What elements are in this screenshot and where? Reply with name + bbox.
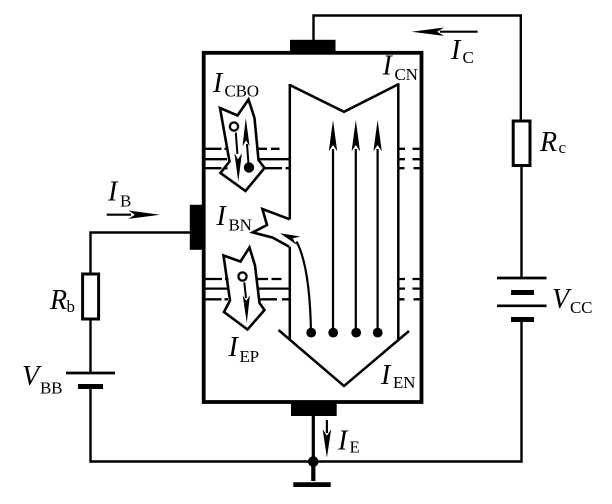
svg-text:EP: EP [240, 347, 259, 366]
node: emitter junction dot [308, 456, 319, 467]
collector junction lines left [206, 149, 229, 168]
electron dot in Icbo [244, 162, 254, 172]
electron line 1 recombination curve [280, 233, 316, 337]
arrow Ib [107, 211, 160, 219]
svg-text:I: I [380, 360, 392, 391]
funnel left edge upper [289, 84, 292, 219]
arrow Iep outline [224, 248, 265, 330]
hole down arrow in Icbo [234, 133, 242, 182]
svg-text:R: R [539, 127, 557, 158]
svg-text:I: I [212, 68, 224, 99]
funnel right edge [397, 83, 400, 341]
collector contact [290, 40, 336, 54]
arrow Ie [323, 420, 332, 458]
hole down arrow in Iep [243, 282, 250, 323]
svg-text:BN: BN [229, 216, 252, 235]
electron line 4 [373, 120, 383, 338]
hole circle in Icbo [230, 122, 238, 130]
ground [293, 462, 330, 485]
svg-text:CC: CC [570, 298, 592, 317]
svg-text:V: V [552, 284, 572, 315]
wire: Vbb to Rb [89, 319, 91, 373]
emitter contact [291, 402, 337, 416]
collector junction dashes right [398, 149, 420, 168]
resistor Rb [83, 274, 99, 319]
emitter junction dashes right [398, 279, 420, 299]
svg-text:CBO: CBO [225, 82, 259, 101]
svg-text:E: E [350, 438, 360, 457]
electron up arrow in Icbo [243, 118, 250, 163]
wire: top from collector stub to right rail [314, 16, 521, 41]
svg-text:c: c [559, 138, 567, 157]
svg-text:CN: CN [395, 65, 418, 84]
svg-text:I: I [216, 201, 228, 232]
resistor Rc [513, 121, 530, 166]
svg-text:I: I [337, 426, 349, 457]
emitter stub wire [312, 416, 315, 462]
wire: left rail up to Vbb [89, 387, 91, 463]
svg-text:b: b [67, 297, 75, 316]
emitter junction lines middle [257, 279, 290, 299]
svg-text:I: I [450, 35, 462, 66]
svg-text:V: V [22, 361, 42, 392]
wire: bottom rail [91, 460, 522, 462]
funnel top V [290, 84, 399, 112]
funnel bottom V [279, 330, 410, 386]
electron line 3 [351, 120, 361, 338]
svg-text:I: I [382, 51, 394, 82]
base contact [190, 205, 206, 250]
wire: Rc to Vcc [520, 166, 522, 279]
svg-text:C: C [463, 48, 474, 67]
arrow Icbo outline [220, 100, 265, 192]
collector junction lines middle [257, 149, 290, 168]
emitter junction lines left [206, 279, 229, 299]
battery Vcc [497, 278, 547, 320]
svg-text:BB: BB [40, 379, 62, 398]
wire: right rail down to Rc [520, 14, 522, 121]
electron line 2 [328, 120, 338, 338]
wire: Rb up to base corner [91, 233, 191, 275]
wire: Vcc to bottom rail [520, 320, 522, 463]
hole circle in Iep [238, 272, 246, 280]
battery Vbb [66, 373, 115, 387]
funnel left edge lower [289, 247, 292, 340]
arrow Ibn outline [253, 209, 290, 247]
svg-text:I: I [107, 177, 119, 208]
svg-text:B: B [120, 192, 131, 211]
arrow Ic [412, 28, 478, 36]
svg-text:I: I [228, 332, 240, 363]
transistor body box [204, 53, 422, 402]
svg-text:R: R [49, 285, 67, 316]
svg-text:EN: EN [393, 373, 415, 392]
